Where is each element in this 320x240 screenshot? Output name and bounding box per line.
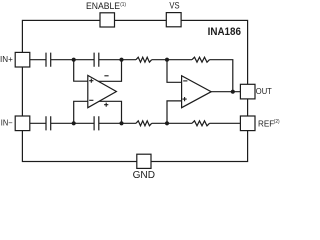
pin ENABLE: [100, 13, 115, 27]
svg-text:REF: REF: [258, 119, 274, 128]
wire R3 to R4 through node C': [152, 122, 192, 124]
wire node A' up to U1 - input: [74, 101, 88, 123]
resistor R1 (top gain resistor): [136, 57, 152, 62]
wire C1 to C2 through node A: [51, 59, 94, 61]
U1 + output sign: [104, 103, 108, 107]
U1 - output sign: [104, 75, 108, 77]
node A' junction dot: [72, 121, 76, 125]
IC boundary box: [22, 20, 247, 161]
capacitor C4 (IN- path second cap): [94, 116, 99, 130]
node B' junction dot: [119, 121, 123, 125]
pin IN-: [15, 116, 30, 131]
node A junction dot: [72, 58, 76, 62]
capacitor C1 (IN+ sampling cap): [46, 53, 51, 67]
pin OUT: [240, 84, 255, 99]
node B junction dot: [119, 58, 123, 62]
wire node C down to U2 - input: [167, 60, 182, 83]
wire bottom path IN- to C3: [30, 122, 46, 124]
node C junction dot: [165, 58, 169, 62]
op-amp U2 (output stage): [182, 76, 212, 108]
svg-text:IN+: IN+: [0, 55, 13, 64]
U2 - input sign: [183, 80, 187, 82]
capacitor C3 (IN- sampling cap): [46, 116, 51, 130]
U1 - input sign: [89, 99, 93, 101]
U1 + input sign: [89, 79, 93, 83]
op-amp U1 (fully differential first stage): [88, 75, 117, 107]
wire C2 to R1 through node B: [99, 59, 136, 61]
resistor R4 (REF feedback resistor): [192, 121, 210, 126]
wire R1 to R2 through node C: [152, 59, 192, 61]
wire C4 to R3 through node B': [99, 122, 136, 124]
output feedback node dot: [231, 90, 235, 94]
wire top path IN+ to C1: [30, 59, 46, 61]
wire R4 to REF pin: [210, 122, 241, 124]
wire C3 to C4 through node A': [51, 122, 94, 124]
U2 + input sign: [183, 97, 187, 101]
wire U2 output to OUT pin: [211, 91, 240, 93]
wire U1 top output to node B: [96, 60, 122, 82]
svg-text:GND: GND: [133, 170, 155, 181]
resistor R2 (top feedback resistor): [192, 57, 210, 62]
pin REF: [240, 116, 255, 131]
wire node A down to U1 + input: [74, 60, 88, 81]
pin VS: [166, 13, 181, 27]
svg-text:ENABLE: ENABLE: [86, 1, 120, 11]
wire R2 to output node (feedback corner): [210, 60, 233, 92]
resistor R3 (bottom gain resistor): [136, 121, 152, 126]
svg-text:INA186: INA186: [208, 26, 241, 38]
pin GND: [137, 154, 151, 168]
wire node C' up to U2 + input: [167, 101, 182, 123]
capacitor C2 (IN+ path second cap): [94, 53, 99, 67]
pin IN+: [15, 52, 30, 67]
svg-text:VS: VS: [169, 1, 179, 11]
svg-text:IN−: IN−: [1, 119, 13, 128]
svg-text:(1): (1): [120, 2, 126, 8]
node C' junction dot: [165, 121, 169, 125]
svg-text:(2): (2): [274, 119, 280, 125]
wire U1 bottom output to node B': [96, 101, 122, 123]
svg-text:OUT: OUT: [256, 87, 272, 96]
